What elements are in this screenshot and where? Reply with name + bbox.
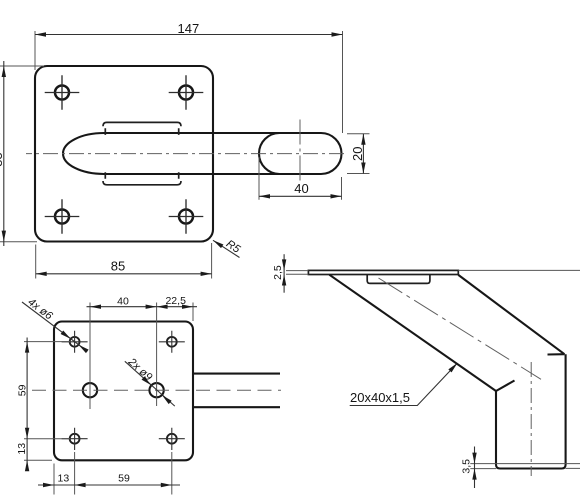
horizontal centerline top view: [32, 389, 281, 391]
extension line through 9mm hole right: [156, 303, 158, 407]
vertical centerline of tube end: [299, 120, 301, 181]
svg-text:59: 59: [118, 472, 130, 484]
svg-text:85: 85: [0, 152, 5, 166]
bend mark upper: [548, 353, 565, 355]
svg-text:2,5: 2,5: [272, 265, 284, 280]
dimension 85 vertical (cropped at left edge): [0, 61, 44, 246]
diagonal centerline: [379, 278, 542, 379]
dimension 59 / 13 left: [16, 338, 70, 472]
extension line through 9mm hole left: [89, 303, 91, 410]
svg-text:22,5: 22,5: [165, 295, 186, 307]
dimension 13 / 59 bottom: [38, 452, 180, 495]
diagonal tube lower edge: [329, 275, 496, 391]
hole 9mm right: [149, 383, 163, 397]
bend mark lower: [496, 381, 515, 392]
dimension 20 (tube end height): [347, 134, 370, 174]
dimension 147: [35, 21, 343, 133]
oval tube end contour (left cap of end section): [259, 133, 280, 174]
leader 2x d9: [125, 355, 175, 406]
weld tab lower ticks: [105, 172, 178, 179]
weld tab (side view): [367, 275, 430, 283]
vertical centerline foot: [530, 362, 532, 476]
hole bottom-left: [45, 199, 80, 234]
svg-text:85: 85: [111, 259, 125, 274]
mounting plate (front view): [35, 66, 213, 242]
hole bottom-right: [169, 199, 204, 234]
dimension 40 / 22,5 top: [87, 295, 198, 321]
weld tab lower: [103, 181, 181, 185]
svg-text:59: 59: [16, 384, 28, 396]
hole 6mm bottom-right: [159, 428, 185, 450]
hole 6mm top-right: [159, 331, 185, 353]
ground reference line lower: [470, 467, 580, 469]
svg-text:13: 13: [58, 472, 70, 484]
ground reference line upper: [470, 463, 580, 465]
hole top-right: [169, 75, 204, 110]
mounting plate (top view): [54, 322, 193, 461]
plate edge-on: [308, 270, 458, 274]
hole top-left: [45, 75, 80, 110]
reference line continuing right: [458, 269, 580, 271]
horizontal centerline front view: [26, 153, 345, 155]
dimension 85 horizontal: [36, 243, 212, 279]
leader 4x d6: [22, 296, 89, 353]
leader R5: [212, 238, 243, 258]
oval tube silhouette: [63, 133, 341, 174]
svg-text:40: 40: [294, 181, 308, 196]
svg-text:3,5: 3,5: [461, 459, 473, 474]
label 20x40x1,5: [350, 361, 459, 405]
dimension 40 (tube end width): [259, 157, 342, 200]
hole 6mm bottom-left: [62, 428, 88, 450]
diagonal tube upper edge: [458, 275, 564, 354]
svg-text:40: 40: [117, 295, 129, 307]
hole 6mm top-left: [62, 331, 88, 353]
dimension 3,5: [461, 447, 477, 489]
svg-text:20: 20: [350, 147, 365, 161]
vertical foot: [496, 354, 566, 468]
weld tab upper ticks: [105, 128, 178, 135]
svg-text:147: 147: [178, 21, 200, 36]
hole 9mm left: [83, 383, 97, 397]
svg-text:20x40x1,5: 20x40x1,5: [350, 390, 410, 405]
svg-text:13: 13: [16, 443, 28, 455]
dimension 2,5: [272, 254, 309, 293]
weld tab upper: [103, 122, 181, 126]
tube (top view): [194, 374, 280, 408]
